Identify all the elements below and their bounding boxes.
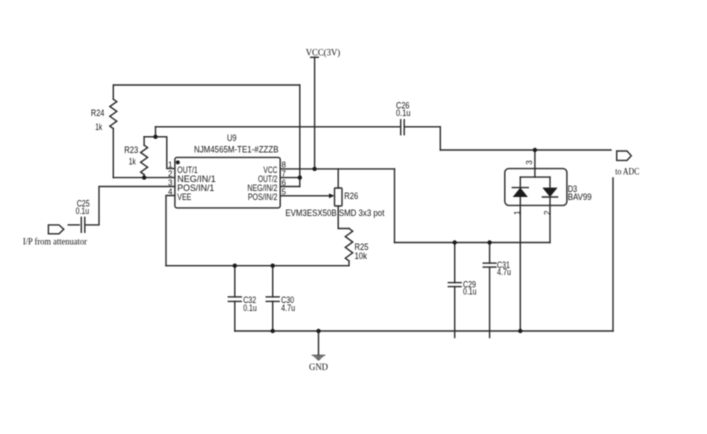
svg-text:8: 8 bbox=[282, 161, 287, 170]
wire VCC drop bbox=[314, 57, 316, 169]
svg-text:7: 7 bbox=[282, 170, 287, 179]
svg-text:1: 1 bbox=[168, 161, 173, 170]
capacitor C26 bbox=[401, 120, 405, 135]
svg-text:R23: R23 bbox=[124, 145, 138, 155]
svg-text:VCC(3V): VCC(3V) bbox=[306, 48, 341, 59]
wire D3 internal T bar bbox=[520, 176, 550, 178]
wire D3 pin3 internal bbox=[534, 169, 536, 178]
capacitor C32 bbox=[228, 266, 241, 331]
svg-text:U9: U9 bbox=[227, 133, 237, 143]
node C32 top bbox=[233, 264, 237, 268]
wire R23 top link bbox=[144, 136, 155, 138]
wire VEE rail bbox=[166, 265, 349, 267]
svg-text:0.1u: 0.1u bbox=[76, 206, 90, 216]
svg-text:I/P from attenuator: I/P from attenuator bbox=[23, 236, 88, 247]
wire vertical OUT/2 feedback column bbox=[299, 85, 301, 187]
node ADC rail / D3 pin3 bbox=[533, 148, 537, 152]
wire up to OUT/1 rail bbox=[155, 127, 157, 137]
wire C26 right bbox=[405, 126, 441, 128]
svg-text:VEE: VEE bbox=[177, 192, 191, 202]
U9 pin1 indicator dot bbox=[176, 160, 180, 164]
capacitor C31 bbox=[483, 243, 496, 338]
wire OUT/1 pin path bbox=[156, 137, 175, 169]
wire C25 to pin3 bbox=[85, 187, 175, 225]
power symbol VCC bar bbox=[311, 56, 319, 58]
ground symbol bbox=[312, 355, 324, 359]
svg-text:0.1u: 0.1u bbox=[396, 108, 411, 118]
node VCC / pin8 bbox=[312, 167, 316, 171]
capacitor C29 bbox=[448, 243, 461, 338]
op-amp U9 box bbox=[175, 157, 280, 208]
wire pot top bbox=[337, 169, 339, 188]
wire D3 pin2 to bias rail bbox=[549, 205, 551, 242]
svg-text:2: 2 bbox=[543, 210, 552, 215]
svg-text:NJM4565M-TE1-#ZZZB: NJM4565M-TE1-#ZZZB bbox=[194, 145, 279, 155]
svg-text:5: 5 bbox=[282, 188, 287, 197]
wire GND stub bbox=[318, 331, 320, 355]
svg-text:R26: R26 bbox=[344, 191, 358, 201]
capacitor C25 bbox=[81, 217, 85, 232]
svg-text:2: 2 bbox=[168, 170, 173, 179]
output connector to ADC bbox=[617, 151, 632, 160]
svg-text:3: 3 bbox=[168, 179, 173, 188]
node R23 bottom / NEG/IN/1 bbox=[142, 175, 146, 179]
wire GND rail bbox=[235, 330, 613, 332]
svg-text:1k: 1k bbox=[95, 122, 102, 132]
svg-text:10k: 10k bbox=[355, 251, 368, 261]
svg-text:POS/IN/2: POS/IN/2 bbox=[248, 192, 278, 202]
resistor R25 bbox=[345, 229, 352, 266]
diode D3a (left, cathode up) bbox=[512, 177, 528, 205]
node D3 pin1 / GND bbox=[518, 329, 522, 333]
svg-text:4: 4 bbox=[168, 188, 173, 197]
svg-text:3: 3 bbox=[525, 160, 534, 165]
wire VEE drop bbox=[166, 196, 175, 266]
svg-text:1k: 1k bbox=[129, 157, 136, 167]
svg-text:4.7u: 4.7u bbox=[281, 303, 295, 313]
wire input to C25 bbox=[68, 224, 79, 226]
node GND tap bbox=[316, 329, 320, 333]
wire right edge up bbox=[612, 178, 614, 331]
wire corner down bbox=[439, 127, 441, 150]
svg-text:0.1u: 0.1u bbox=[243, 303, 256, 313]
svg-text:R24: R24 bbox=[91, 108, 105, 118]
node OUT/2 bbox=[298, 175, 302, 179]
node C30 top bbox=[271, 264, 275, 268]
wire D3 pin1 to GND rail bbox=[519, 205, 521, 331]
node C29 top bbox=[453, 240, 457, 244]
svg-text:4.7u: 4.7u bbox=[497, 267, 511, 277]
diode D3b (right, cathode down) bbox=[542, 177, 557, 205]
svg-text:GND: GND bbox=[309, 363, 328, 373]
svg-text:0.1u: 0.1u bbox=[463, 287, 477, 297]
capacitor C30 bbox=[266, 266, 279, 331]
wire pin2 NEG/IN/1 bbox=[113, 177, 175, 179]
svg-text:EVM3ESX50B SMD 3x3 pot: EVM3ESX50B SMD 3x3 pot bbox=[285, 208, 384, 218]
wire VCC rail corner down bbox=[394, 169, 396, 243]
wire down to D3 pin3 bbox=[534, 150, 536, 169]
wire pin6 NEG/IN/2 stub bbox=[280, 186, 300, 188]
svg-text:6: 6 bbox=[282, 179, 287, 188]
node C31 top bbox=[487, 240, 491, 244]
resistor R23 bbox=[141, 137, 148, 178]
wire feedback top: R24 top to OUT/2 column bbox=[114, 84, 300, 86]
node C30 bottom bbox=[271, 329, 275, 333]
wire pin8 VCC rail bbox=[280, 168, 394, 170]
diode pack D3 box bbox=[505, 169, 567, 206]
wire bias rail bbox=[395, 242, 551, 244]
wire OUT/1 rail to C26 bbox=[156, 126, 401, 128]
svg-text:to ADC: to ADC bbox=[615, 167, 639, 177]
node R23 top / OUT/1 bbox=[153, 135, 157, 139]
wire pin7 OUT/2 stub bbox=[280, 177, 300, 179]
wire pin5 POS/IN/2 to wiper bbox=[280, 195, 329, 197]
wire rail to ADC bbox=[440, 149, 611, 151]
pot wiper arrowhead bbox=[329, 193, 334, 198]
input connector I/P bbox=[48, 225, 63, 234]
potentiometer R26 body bbox=[335, 188, 343, 206]
wire pot bottom bbox=[338, 206, 349, 229]
resistor R24 bbox=[110, 85, 117, 178]
svg-text:1: 1 bbox=[513, 210, 522, 215]
svg-text:BAV99: BAV99 bbox=[568, 192, 592, 202]
